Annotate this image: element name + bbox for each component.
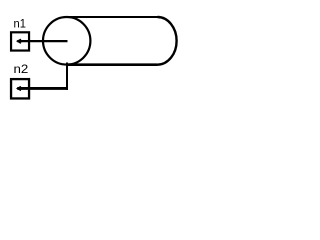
wire n2 horizontal bbox=[17, 87, 68, 90]
svg-text:n2: n2 bbox=[14, 62, 29, 76]
wire n1 bbox=[17, 40, 67, 42]
port n1 bbox=[11, 32, 29, 50]
port n2 bbox=[11, 79, 29, 98]
cylinder bottom line bbox=[67, 63, 158, 66]
svg-text:n1: n1 bbox=[14, 16, 27, 30]
cylinder right cap bbox=[158, 17, 177, 65]
cylinder left end (circle) bbox=[43, 17, 90, 65]
wire n2 vertical bbox=[66, 63, 68, 91]
cylinder top line bbox=[67, 16, 158, 18]
